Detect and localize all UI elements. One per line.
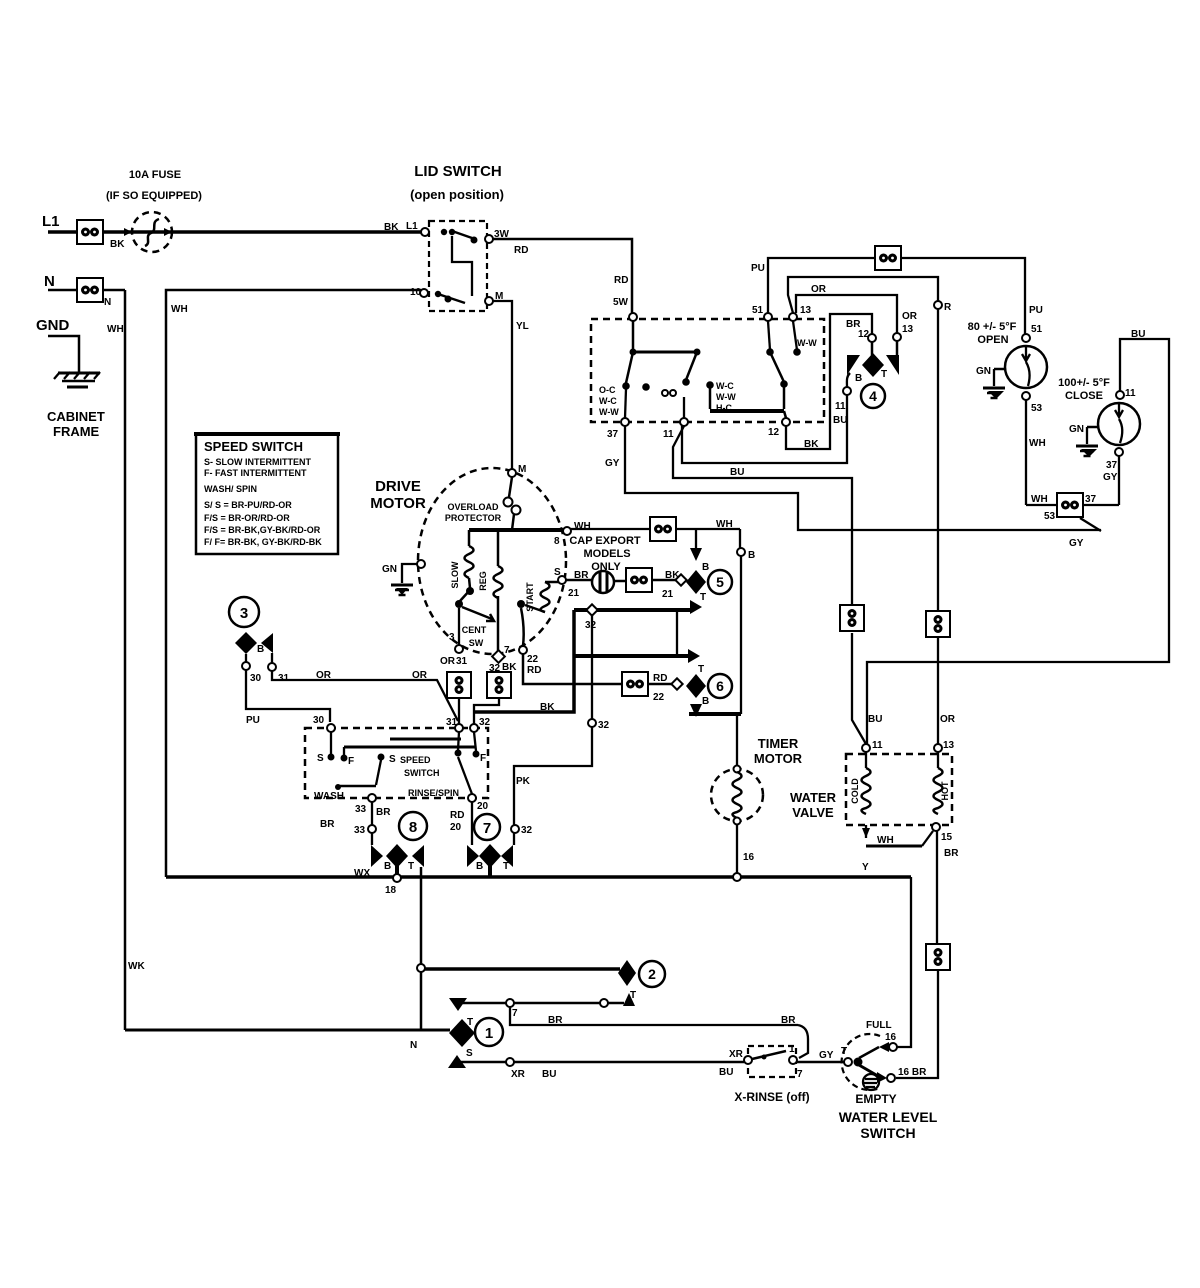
svg-text:F- FAST INTERMITTENT: F- FAST INTERMITTENT: [204, 468, 307, 478]
svg-text:PK: PK: [516, 776, 531, 787]
connector plug WH/GY: [1026, 504, 1058, 506]
svg-text:OPEN: OPEN: [977, 334, 1008, 346]
terminal M of drive motor: [508, 469, 516, 477]
svg-text:B: B: [748, 550, 755, 561]
svg-text:Y: Y: [862, 862, 869, 873]
svg-text:SPEED SWITCH: SPEED SWITCH: [204, 439, 303, 454]
svg-text:80 +/- 5°F: 80 +/- 5°F: [968, 321, 1017, 333]
svg-text:OR: OR: [940, 714, 956, 725]
svg-text:(open position): (open position): [410, 187, 504, 202]
svg-text:OR: OR: [316, 670, 332, 681]
svg-text:RD: RD: [527, 665, 541, 676]
svg-text:GY: GY: [605, 458, 620, 469]
svg-text:GY: GY: [1103, 472, 1118, 483]
terminal 3W of lid switch: [483, 233, 494, 244]
svg-text:16 BR: 16 BR: [898, 1067, 927, 1078]
wire BR down: [936, 831, 938, 944]
svg-text:MOTOR: MOTOR: [754, 751, 803, 766]
svg-text:BR: BR: [376, 807, 391, 818]
terminal 11 water valve: [862, 744, 870, 752]
svg-text:F/ F= BR-BK, GY-BK/RD-BK: F/ F= BR-BK, GY-BK/RD-BK: [204, 537, 322, 547]
terminal 8 WH: [563, 527, 571, 535]
svg-text:32: 32: [585, 620, 597, 631]
svg-text:7: 7: [512, 1008, 518, 1019]
svg-text:B: B: [702, 562, 709, 573]
wire OR to speed switch 31: [272, 671, 458, 721]
svg-text:6: 6: [716, 678, 724, 694]
wire N white: [48, 289, 125, 292]
svg-text:CAP EXPORT: CAP EXPORT: [569, 535, 641, 547]
svg-text:22: 22: [653, 692, 665, 703]
wire BK from 12 to connector 4: [786, 314, 872, 449]
terminal 51: [764, 313, 772, 321]
svg-text:W-W: W-W: [797, 338, 817, 348]
wire YL from M to drive motor: [493, 301, 512, 469]
contact labels W-C W-W H-C: [706, 381, 714, 389]
connector 5: [686, 570, 706, 594]
svg-text:N: N: [104, 297, 111, 308]
wire RD row: [519, 646, 527, 654]
svg-text:T: T: [881, 369, 887, 380]
svg-text:8: 8: [409, 819, 417, 836]
svg-text:XR: XR: [729, 1049, 744, 1060]
svg-text:M: M: [518, 464, 526, 475]
svg-text:51: 51: [1031, 324, 1043, 335]
main bus wire: [166, 875, 911, 879]
terminal M of lid switch: [483, 295, 494, 306]
svg-text:20: 20: [477, 801, 489, 812]
wire PU from 51 to thermostat: [768, 258, 1025, 334]
svg-text:F: F: [348, 756, 354, 767]
svg-text:OR: OR: [440, 656, 456, 667]
wire bar 32: [574, 608, 691, 612]
svg-text:GY: GY: [819, 1050, 834, 1061]
wire GY from thermostat 2: [1118, 456, 1120, 505]
svg-text:37: 37: [607, 429, 619, 440]
svg-text:T: T: [700, 592, 706, 603]
timer contact arm 5W: [632, 321, 635, 352]
svg-text:O-C: O-C: [599, 385, 616, 395]
svg-text:OVERLOAD: OVERLOAD: [447, 502, 499, 512]
svg-text:53: 53: [1031, 403, 1043, 414]
wire T to T: [455, 1002, 624, 1005]
svg-text:SW: SW: [469, 638, 484, 648]
svg-text:20: 20: [450, 822, 462, 833]
connector 2: [618, 960, 636, 986]
svg-text:B: B: [476, 861, 483, 872]
reg winding: [497, 530, 500, 566]
fuse F1 10A: [132, 212, 172, 252]
svg-text:WASH/ SPIN: WASH/ SPIN: [204, 484, 257, 494]
terminal 37: [621, 418, 629, 426]
svg-text:F: F: [480, 753, 486, 764]
svg-text:HOT: HOT: [940, 781, 950, 801]
wire OR 31 to speed switch: [458, 698, 460, 724]
wire RD from 3W: [493, 239, 632, 313]
speed switch box: [305, 728, 488, 798]
wire PU to speed switch 30: [246, 670, 330, 722]
svg-text:OR: OR: [412, 670, 428, 681]
svg-text:S- SLOW INTERMITTENT: S- SLOW INTERMITTENT: [204, 457, 311, 467]
svg-text:FULL: FULL: [866, 1020, 892, 1031]
wire BU diag: [852, 633, 866, 744]
svg-text:37: 37: [1085, 494, 1097, 505]
svg-text:DRIVE: DRIVE: [375, 478, 421, 495]
svg-text:11: 11: [663, 429, 674, 440]
svg-text:53: 53: [1044, 511, 1056, 522]
svg-text:13: 13: [943, 740, 955, 751]
svg-text:33: 33: [354, 825, 366, 836]
X-rinse switch: [748, 1046, 796, 1077]
wire BK jog: [474, 610, 574, 712]
terminal 13 connector 4: [893, 333, 901, 341]
connector plugs on vertical wires: [447, 672, 471, 698]
svg-text:PU: PU: [246, 715, 260, 726]
svg-text:YL: YL: [516, 321, 529, 332]
svg-text:S/ S = BR-PU/RD-OR: S/ S = BR-PU/RD-OR: [204, 500, 292, 510]
svg-text:SLOW: SLOW: [450, 561, 460, 589]
svg-text:OR: OR: [902, 311, 918, 322]
svg-text:37: 37: [1106, 460, 1118, 471]
svg-text:32: 32: [598, 720, 610, 731]
svg-text:BU: BU: [719, 1067, 733, 1078]
wire OR from 13 to water valve: [788, 277, 938, 611]
terminal 12 connector 4: [868, 334, 876, 342]
svg-text:BK: BK: [804, 439, 819, 450]
motor bus bar: [469, 528, 566, 532]
start winding: [545, 581, 562, 584]
svg-text:TIMER: TIMER: [758, 736, 799, 751]
svg-text:N: N: [410, 1040, 417, 1051]
svg-text:8: 8: [554, 536, 560, 547]
svg-text:5: 5: [716, 574, 724, 590]
svg-text:L1: L1: [406, 221, 418, 232]
svg-text:GY: GY: [1069, 538, 1084, 549]
wire WH top of loop: [166, 290, 421, 877]
svg-text:BR: BR: [944, 848, 959, 859]
wire BR 33 down: [371, 802, 373, 845]
svg-text:SWITCH: SWITCH: [404, 768, 440, 778]
svg-text:BU: BU: [730, 467, 744, 478]
svg-text:WK: WK: [128, 961, 145, 972]
svg-text:MOTOR: MOTOR: [370, 495, 426, 512]
svg-text:11: 11: [1125, 388, 1136, 399]
terminal 12: [782, 418, 790, 426]
svg-text:S: S: [317, 753, 324, 764]
svg-text:BK: BK: [110, 239, 125, 250]
svg-text:T: T: [698, 664, 704, 675]
terminal 11: [680, 418, 688, 426]
wire to connector 2: [425, 967, 620, 971]
svg-text:S: S: [466, 1048, 473, 1059]
svg-text:BU: BU: [868, 714, 882, 725]
svg-text:SPEED: SPEED: [400, 755, 431, 765]
svg-text:CABINET: CABINET: [47, 409, 105, 424]
wire 32 PK down: [514, 614, 592, 845]
svg-text:BR: BR: [320, 819, 335, 830]
svg-text:B: B: [384, 861, 391, 872]
svg-text:WH: WH: [716, 519, 733, 530]
slow winding: [468, 530, 471, 546]
svg-text:33: 33: [355, 804, 367, 815]
svg-text:31: 31: [456, 656, 468, 667]
svg-text:WH: WH: [877, 835, 894, 846]
timer contact bar: [710, 409, 784, 413]
connector plug on PU wire: [875, 246, 901, 270]
svg-text:MODELS: MODELS: [583, 548, 630, 560]
svg-text:GN: GN: [382, 564, 397, 575]
svg-text:WH: WH: [107, 324, 124, 335]
svg-text:LID SWITCH: LID SWITCH: [414, 163, 502, 180]
svg-text:12: 12: [768, 427, 780, 438]
svg-text:18: 18: [385, 885, 397, 896]
svg-text:RD: RD: [614, 275, 628, 286]
svg-text:13: 13: [902, 324, 914, 335]
connector 8 cluster: [399, 812, 427, 840]
svg-text:VALVE: VALVE: [792, 805, 834, 820]
svg-text:1: 1: [485, 1025, 493, 1042]
svg-text:COLD: COLD: [850, 778, 860, 804]
connector plug on N wire: [77, 278, 103, 302]
svg-text:REG: REG: [478, 571, 488, 591]
timer contact arm 51: [766, 348, 774, 356]
svg-text:R: R: [944, 302, 952, 313]
svg-text:7: 7: [483, 820, 491, 837]
svg-text:SWITCH: SWITCH: [860, 1125, 915, 1141]
wire BU to X-rinse: [457, 1061, 744, 1064]
svg-text:T: T: [408, 861, 414, 872]
svg-text:CENT: CENT: [462, 625, 487, 635]
svg-text:WH: WH: [1031, 494, 1048, 505]
terminal 33: [368, 794, 376, 802]
speed switch bars: [390, 738, 461, 741]
svg-text:WASH: WASH: [314, 791, 344, 802]
terminal 20: [468, 794, 476, 802]
svg-text:GN: GN: [1069, 424, 1084, 435]
svg-text:OR: OR: [811, 284, 827, 295]
cold solenoid: [865, 752, 867, 768]
wire down to water level switch full: [897, 877, 911, 1047]
svg-text:W-W: W-W: [599, 407, 619, 417]
svg-text:PU: PU: [751, 263, 765, 274]
wire GY: [797, 1061, 844, 1064]
svg-text:11: 11: [835, 401, 846, 412]
wire WH to connector: [571, 528, 650, 530]
svg-text:12: 12: [858, 329, 870, 340]
overload protector: [509, 477, 512, 497]
connector 4: [871, 342, 874, 356]
svg-text:32: 32: [521, 825, 533, 836]
svg-text:51: 51: [752, 305, 764, 316]
circle 4: [861, 384, 885, 408]
svg-text:31: 31: [278, 673, 290, 684]
svg-text:PROTECTOR: PROTECTOR: [445, 513, 502, 523]
wire BU right loop: [867, 339, 1169, 744]
terminal 5W: [629, 313, 637, 321]
svg-text:30: 30: [313, 715, 325, 726]
svg-text:1: 1: [789, 1044, 795, 1055]
svg-text:7: 7: [797, 1069, 803, 1080]
svg-text:10A FUSE: 10A FUSE: [129, 169, 181, 181]
svg-text:(IF SO EQUIPPED): (IF SO EQUIPPED): [106, 190, 202, 202]
svg-text:B: B: [702, 696, 709, 707]
svg-text:RD: RD: [450, 810, 464, 821]
svg-text:16: 16: [885, 1032, 897, 1043]
svg-text:21: 21: [662, 589, 674, 600]
svg-text:BR: BR: [548, 1015, 563, 1026]
svg-text:X-RINSE (off): X-RINSE (off): [734, 1090, 809, 1104]
svg-text:22: 22: [527, 654, 539, 665]
timer contact 13: [793, 348, 801, 356]
svg-text:WH: WH: [171, 304, 188, 315]
terminal L1 of lid switch: [421, 228, 429, 236]
svg-text:5W: 5W: [613, 297, 629, 308]
connector plug on BR wire: [626, 568, 652, 592]
svg-text:START: START: [525, 582, 535, 612]
wire bar to connector 6: [574, 654, 689, 658]
svg-text:PU: PU: [1029, 305, 1043, 316]
svg-text:11: 11: [872, 740, 883, 751]
terminal B right loop: [739, 529, 741, 548]
wire BU from connector 4 to timer 11: [847, 373, 850, 387]
connector 7 cluster: [474, 814, 500, 840]
water level switch: [844, 1058, 852, 1066]
svg-text:3: 3: [449, 632, 455, 643]
svg-text:4: 4: [869, 388, 877, 404]
svg-text:16: 16: [743, 852, 755, 863]
svg-text:21: 21: [568, 588, 580, 599]
svg-text:RINSE/SPIN: RINSE/SPIN: [408, 788, 459, 798]
svg-text:BU: BU: [1131, 329, 1145, 340]
svg-text:N: N: [44, 273, 55, 290]
svg-text:15: 15: [941, 832, 953, 843]
wire BR to X-rinse: [510, 1007, 798, 1025]
timer cam switch box: [591, 319, 824, 422]
svg-text:GND: GND: [36, 317, 70, 334]
svg-text:W-W: W-W: [716, 392, 736, 402]
speed switch legend box: [196, 434, 338, 554]
wire down to circles 1 2: [420, 877, 423, 1030]
svg-text:F/S = BR-BK,GY-BK/RD-OR: F/S = BR-BK,GY-BK/RD-OR: [204, 525, 321, 535]
svg-text:100+/- 5°F: 100+/- 5°F: [1058, 377, 1110, 389]
wire WH down left side: [124, 290, 127, 1030]
svg-text:CLOSE: CLOSE: [1065, 390, 1103, 402]
svg-text:WATER: WATER: [790, 790, 837, 805]
lid switch mechanical link: [452, 236, 472, 296]
hot solenoid: [937, 752, 939, 768]
wire N bottom: [125, 1029, 450, 1032]
cent switch: [460, 590, 470, 601]
svg-text:7: 7: [504, 645, 510, 656]
svg-text:2: 2: [648, 966, 656, 982]
wire BU from timer 11 down: [673, 426, 852, 604]
wire GY from timer 37: [625, 426, 1101, 530]
terminal 13 water valve: [934, 744, 942, 752]
wire BK 32 to speed switch: [474, 698, 499, 724]
svg-text:L1: L1: [42, 213, 60, 230]
svg-text:W-C: W-C: [716, 381, 734, 391]
svg-text:B: B: [257, 644, 264, 655]
svg-text:RD: RD: [653, 673, 667, 684]
wire WH from 53: [1025, 400, 1027, 505]
svg-text:W-C: W-C: [599, 396, 617, 406]
svg-text:BU: BU: [833, 415, 847, 426]
svg-text:BK: BK: [540, 702, 555, 713]
svg-text:WATER LEVEL: WATER LEVEL: [839, 1109, 938, 1125]
svg-text:EMPTY: EMPTY: [855, 1092, 896, 1106]
wire to connector 4 from 13: [796, 295, 897, 333]
svg-text:FRAME: FRAME: [53, 424, 100, 439]
svg-text:WH: WH: [1029, 438, 1046, 449]
svg-text:RD: RD: [514, 245, 528, 256]
wire L1 black: [48, 230, 425, 234]
svg-text:WH: WH: [574, 521, 591, 532]
terminal 13: [789, 313, 797, 321]
wire RD 20 down: [471, 802, 473, 845]
svg-text:BU: BU: [542, 1069, 556, 1080]
svg-text:3: 3: [240, 605, 248, 622]
svg-text:30: 30: [250, 673, 262, 684]
wire WH jumper: [865, 825, 867, 838]
svg-text:B: B: [855, 373, 862, 384]
svg-text:31: 31: [446, 717, 458, 728]
svg-text:XR: XR: [511, 1069, 526, 1080]
svg-text:F/S = BR-OR/RD-OR: F/S = BR-OR/RD-OR: [204, 513, 290, 523]
svg-text:T: T: [503, 861, 509, 872]
connector plug on L1 wire: [77, 220, 103, 244]
connector 1: [449, 998, 467, 1011]
svg-text:S: S: [389, 754, 396, 765]
svg-text:32: 32: [479, 717, 491, 728]
svg-text:BR: BR: [781, 1015, 796, 1026]
svg-text:GN: GN: [976, 366, 991, 377]
svg-text:BK: BK: [384, 222, 399, 233]
svg-text:13: 13: [800, 305, 812, 316]
speed switch contacts: [330, 732, 332, 754]
circle 3 connector: [229, 597, 259, 627]
